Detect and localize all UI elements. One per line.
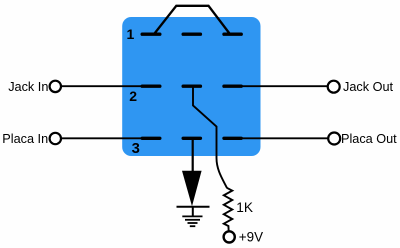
lug 1-2: [183, 33, 200, 36]
lug 3-2: [183, 137, 200, 140]
wire Jack Out: [232, 85, 329, 87]
resistor R1 1K zigzag: [224, 188, 233, 232]
svg-text:2: 2: [129, 88, 137, 104]
LED cathode bar: [177, 206, 210, 208]
wire cathode to ground: [192, 207, 194, 216]
wire Placa In: [61, 137, 152, 139]
terminal Placa Out: [328, 133, 340, 145]
lug 2-2: [183, 84, 200, 87]
jumper wire (lug 1-1 to lug 1-3 over top): [155, 6, 230, 34]
terminal Placa In: [50, 133, 61, 144]
lug 1-1: [142, 33, 160, 36]
terminal +9V: [224, 231, 235, 242]
lug 1-3: [224, 33, 241, 36]
svg-text:+9V: +9V: [239, 229, 263, 244]
svg-text:Placa Out: Placa Out: [341, 132, 397, 146]
wire lug 3-2 to LED: [192, 138, 194, 171]
LED D1 (triangle to ground): [182, 171, 202, 207]
terminal Jack Out: [328, 81, 340, 93]
lug 3-1: [142, 137, 160, 140]
lug 2-1: [142, 84, 160, 87]
wire lug 2-2 to resistor: [193, 86, 227, 188]
svg-text:Jack In: Jack In: [8, 80, 48, 94]
svg-text:1: 1: [127, 26, 135, 42]
svg-text:Jack Out: Jack Out: [343, 80, 394, 94]
svg-text:Placa In: Placa In: [2, 132, 48, 146]
wire Jack In: [61, 85, 152, 87]
lug 3-3: [224, 137, 241, 140]
wire Placa Out: [232, 137, 329, 139]
svg-text:3: 3: [132, 141, 140, 157]
svg-text:1K: 1K: [236, 200, 253, 215]
switch body (3PDT): [122, 17, 260, 156]
lug 2-3: [224, 84, 241, 87]
terminal Jack In: [50, 81, 61, 92]
ground symbol: [182, 216, 202, 226]
